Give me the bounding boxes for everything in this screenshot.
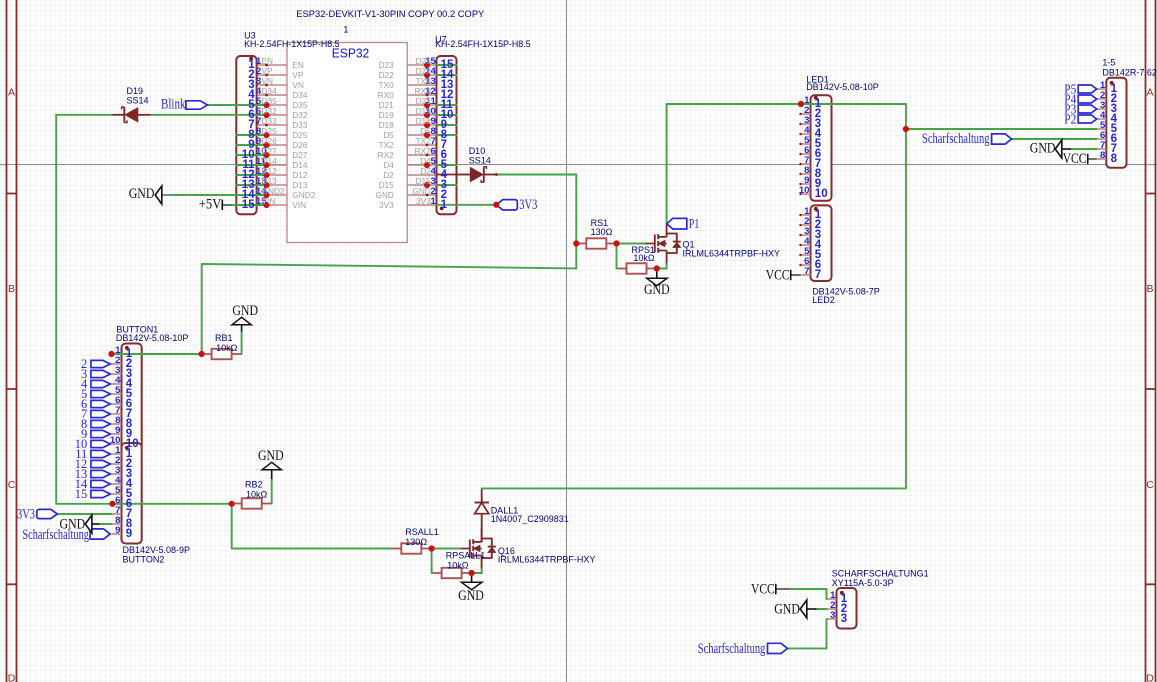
svg-text:3: 3 (841, 613, 847, 625)
svg-text:D26: D26 (292, 140, 308, 150)
svg-text:15: 15 (75, 487, 88, 501)
svg-text:1: 1 (441, 199, 448, 211)
svg-text:GND: GND (375, 190, 393, 200)
svg-text:D33: D33 (262, 116, 278, 126)
svg-text:D18: D18 (379, 120, 395, 130)
svg-text:D2: D2 (383, 170, 394, 180)
svg-text:B: B (8, 283, 15, 295)
svg-text:KH-2.54FH-1X15P-H8.5: KH-2.54FH-1X15P-H8.5 (244, 39, 340, 49)
svg-text:D10: D10 (469, 146, 486, 156)
svg-text:RB2: RB2 (245, 480, 263, 490)
svg-text:Scharfschaltung: Scharfschaltung (922, 131, 990, 147)
svg-text:15: 15 (242, 199, 255, 211)
svg-text:C: C (8, 479, 16, 491)
svg-text:BUTTON2: BUTTON2 (123, 554, 165, 564)
svg-text:EN: EN (292, 60, 304, 70)
svg-text:D21: D21 (379, 100, 395, 110)
svg-text:+5V: +5V (199, 196, 222, 212)
svg-text:KH-2.54FH-1X15P-H8.5: KH-2.54FH-1X15P-H8.5 (435, 39, 530, 49)
svg-text:D32: D32 (262, 106, 278, 116)
svg-text:GND2: GND2 (262, 186, 285, 196)
svg-text:3V3: 3V3 (17, 506, 35, 522)
svg-text:3V3: 3V3 (519, 197, 537, 213)
svg-text:9: 9 (126, 528, 132, 540)
svg-text:VIN: VIN (262, 196, 276, 206)
svg-text:D35: D35 (292, 100, 308, 110)
svg-text:VP: VP (262, 66, 274, 76)
svg-text:D26: D26 (262, 136, 278, 146)
svg-text:D25: D25 (262, 126, 278, 136)
svg-text:D: D (8, 673, 16, 682)
svg-text:P2: P2 (1064, 112, 1076, 127)
svg-text:GND: GND (412, 186, 430, 196)
svg-text:10kΩ: 10kΩ (216, 343, 238, 353)
svg-text:C: C (1146, 479, 1154, 491)
svg-text:SS14: SS14 (127, 95, 149, 105)
svg-text:3V3: 3V3 (416, 196, 431, 206)
svg-text:SS14: SS14 (469, 156, 491, 166)
svg-text:DB142R-7.62: DB142R-7.62 (1102, 68, 1157, 78)
svg-text:RB1: RB1 (215, 333, 233, 343)
svg-text:GND: GND (1030, 141, 1056, 157)
svg-text:RSALL1: RSALL1 (405, 527, 439, 537)
svg-text:10: 10 (815, 188, 828, 200)
svg-text:D23: D23 (379, 60, 395, 70)
svg-text:GND: GND (774, 602, 800, 618)
svg-text:1-5: 1-5 (1102, 58, 1115, 68)
svg-text:A: A (8, 87, 15, 99)
svg-text:TX0: TX0 (416, 76, 432, 86)
svg-text:GND: GND (129, 186, 155, 202)
svg-text:VN: VN (292, 80, 304, 90)
svg-text:Scharfschaltung: Scharfschaltung (698, 641, 766, 657)
svg-text:D19: D19 (416, 106, 432, 116)
svg-text:D27: D27 (262, 146, 278, 156)
svg-text:D22: D22 (416, 66, 432, 76)
svg-text:D12: D12 (292, 170, 308, 180)
svg-text:130Ω: 130Ω (591, 227, 613, 237)
svg-text:GND2: GND2 (292, 190, 315, 200)
svg-text:D12: D12 (262, 166, 278, 176)
svg-text:RX2: RX2 (415, 146, 432, 156)
svg-text:TX2: TX2 (379, 140, 395, 150)
svg-text:D34: D34 (292, 90, 308, 100)
svg-text:D19: D19 (127, 86, 144, 96)
svg-text:B: B (1146, 283, 1153, 295)
svg-text:RX0: RX0 (378, 90, 395, 100)
svg-text:D22: D22 (379, 70, 395, 80)
svg-text:TX0: TX0 (379, 80, 395, 90)
svg-text:D5: D5 (420, 126, 431, 136)
svg-text:10kΩ: 10kΩ (447, 560, 469, 570)
svg-text:LED2: LED2 (812, 295, 835, 305)
svg-text:1N4007_C2909831: 1N4007_C2909831 (491, 514, 569, 524)
svg-text:10: 10 (799, 185, 810, 196)
svg-text:D5: D5 (383, 130, 394, 140)
svg-text:D4: D4 (383, 160, 394, 170)
svg-text:RX2: RX2 (378, 150, 395, 160)
svg-text:8: 8 (1100, 150, 1106, 161)
svg-text:D15: D15 (416, 176, 432, 186)
svg-text:GND: GND (644, 282, 670, 298)
svg-text:D15: D15 (379, 180, 395, 190)
svg-text:P1: P1 (689, 217, 700, 232)
svg-text:D14: D14 (292, 160, 308, 170)
svg-text:D35: D35 (262, 96, 278, 106)
svg-text:RPSALL1: RPSALL1 (446, 550, 486, 560)
svg-text:D21: D21 (416, 96, 432, 106)
svg-text:GND: GND (458, 588, 484, 604)
svg-text:TX2: TX2 (416, 136, 432, 146)
svg-text:DB142V-5.08-10P: DB142V-5.08-10P (806, 82, 879, 92)
svg-text:D27: D27 (292, 150, 308, 160)
svg-text:1: 1 (343, 24, 348, 35)
svg-text:D13: D13 (292, 180, 308, 190)
svg-text:3V3: 3V3 (379, 200, 394, 210)
svg-text:D33: D33 (292, 120, 308, 130)
svg-text:RX0: RX0 (415, 86, 432, 96)
svg-text:D25: D25 (292, 130, 308, 140)
svg-text:7: 7 (815, 269, 821, 281)
svg-text:VCC: VCC (751, 581, 775, 597)
svg-text:D13: D13 (262, 176, 278, 186)
svg-text:IRLML6344TRPBF-HXY: IRLML6344TRPBF-HXY (683, 249, 781, 259)
svg-text:130Ω: 130Ω (405, 537, 427, 547)
svg-text:VCC: VCC (766, 268, 790, 284)
svg-text:GND: GND (232, 303, 258, 319)
svg-text:3: 3 (830, 610, 835, 621)
svg-text:1: 1 (430, 196, 436, 207)
svg-text:IRLML6344TRPBF-HXY: IRLML6344TRPBF-HXY (498, 554, 596, 564)
svg-text:D32: D32 (292, 110, 308, 120)
svg-text:A: A (1146, 87, 1153, 99)
svg-text:8: 8 (1111, 153, 1118, 165)
svg-text:D18: D18 (416, 116, 432, 126)
svg-text:Blink: Blink (161, 97, 186, 113)
svg-text:VCC: VCC (1063, 151, 1087, 167)
svg-text:VN: VN (262, 76, 274, 86)
svg-text:VIN: VIN (292, 200, 306, 210)
svg-text:D14: D14 (262, 156, 278, 166)
svg-text:D19: D19 (379, 110, 395, 120)
svg-text:GND: GND (258, 448, 284, 464)
svg-text:VP: VP (292, 70, 304, 80)
svg-text:D4: D4 (420, 156, 431, 166)
svg-text:DB142V-5.08-10P: DB142V-5.08-10P (116, 333, 189, 343)
svg-text:D34: D34 (262, 86, 278, 96)
svg-text:XY115A-5.0-3P: XY115A-5.0-3P (832, 578, 894, 588)
svg-text:SCHARFSCHALTUNG1: SCHARFSCHALTUNG1 (832, 568, 929, 578)
svg-text:9: 9 (115, 525, 120, 536)
svg-text:D2: D2 (420, 166, 431, 176)
svg-text:D: D (1146, 673, 1154, 682)
svg-text:D23: D23 (416, 56, 432, 66)
svg-text:10kΩ: 10kΩ (246, 489, 268, 499)
svg-text:GND: GND (60, 517, 86, 533)
svg-text:7: 7 (804, 266, 809, 277)
svg-text:ESP32-DEVKIT-V1-30PIN COPY 00.: ESP32-DEVKIT-V1-30PIN COPY 00.2 COPY (296, 9, 485, 20)
svg-text:EN: EN (262, 56, 274, 66)
svg-text:10kΩ: 10kΩ (633, 253, 655, 263)
